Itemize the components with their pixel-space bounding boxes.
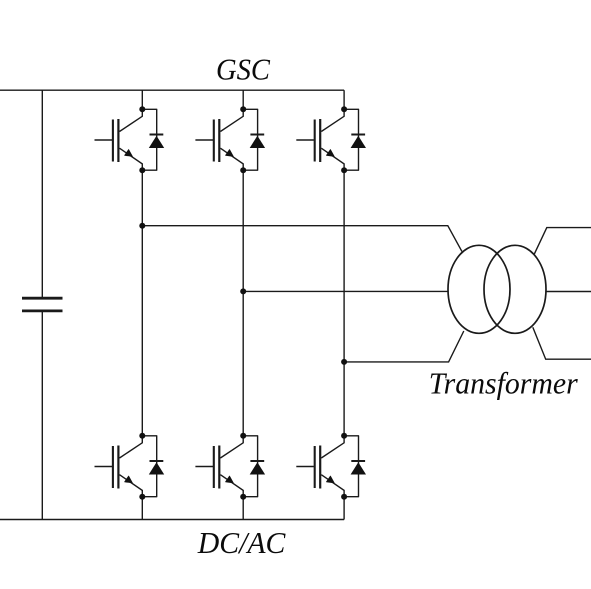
svg-text:DC/AC: DC/AC xyxy=(197,525,286,560)
svg-text:GSC: GSC xyxy=(216,52,270,87)
svg-text:Transformer: Transformer xyxy=(429,365,579,400)
